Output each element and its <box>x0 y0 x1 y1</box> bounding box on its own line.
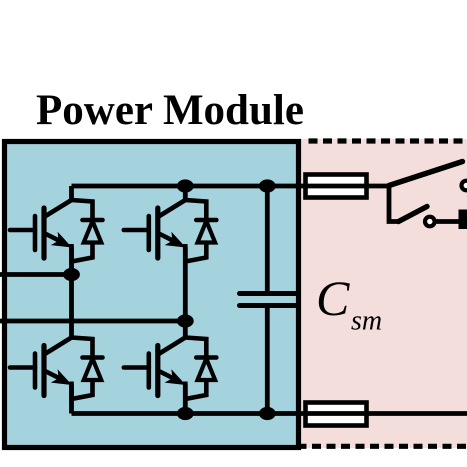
dashed boundary top <box>309 138 467 143</box>
dashed boundary bottom <box>298 444 467 449</box>
power module blue box <box>5 142 299 448</box>
wire: lower contact to terminal <box>435 219 459 224</box>
switch S1 upper contact <box>462 181 467 191</box>
junction node: bottom rail / capacitor <box>259 407 276 420</box>
switch S1 frame wire <box>389 186 399 222</box>
wire: top DC rail <box>72 184 390 189</box>
svg-text:Power Module: Power Module <box>36 87 304 134</box>
IGBT Q1 (top left) <box>10 200 103 264</box>
IGBT Q4 (bottom right) <box>124 338 217 402</box>
submodule pink region <box>296 139 467 448</box>
svg-text:sm: sm <box>351 306 382 337</box>
wire: left leg midpoint terminal <box>0 272 72 277</box>
switch S1 lower blade <box>399 207 428 222</box>
junction node: left leg midpoint <box>63 268 80 281</box>
capacitor C1 plates <box>240 294 297 306</box>
wire: right leg vertical <box>183 186 188 414</box>
junction node: top rail / Q2 collector <box>177 179 194 192</box>
terminal bar <box>459 210 467 230</box>
wire: right leg midpoint terminal <box>0 319 185 324</box>
junction node: right leg midpoint <box>177 314 194 327</box>
junction node: bottom rail / Q4 emitter <box>177 407 194 420</box>
switch S1 upper blade <box>389 162 463 186</box>
IGBT Q3 (bottom left) <box>10 338 103 402</box>
capacitor C1 (DC link) wires <box>265 186 270 414</box>
fuse F2 (bottom, white body) <box>306 403 367 426</box>
wire: left leg vertical <box>69 186 74 414</box>
switch S1 lower contact <box>425 217 435 227</box>
junction node: top rail / capacitor <box>259 179 276 192</box>
fuse F1 (top, white body) <box>306 175 367 198</box>
wire: bottom DC rail <box>72 411 467 416</box>
svg-text:C: C <box>316 270 350 326</box>
IGBT Q2 (top right) <box>124 200 217 264</box>
